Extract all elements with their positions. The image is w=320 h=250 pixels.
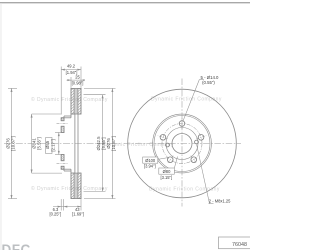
svg-text:(0.55"): (0.55") xyxy=(202,80,215,85)
section centerline xyxy=(4,143,122,145)
svg-text:Ø55: Ø55 xyxy=(45,140,50,149)
box phi80 xyxy=(159,157,178,180)
svg-text:[10.87"]: [10.87"] xyxy=(111,136,116,151)
label 5-phi14 xyxy=(201,75,220,85)
outer circle xyxy=(128,89,237,198)
dim 49.2 xyxy=(60,67,62,114)
flange strip top (hatched) xyxy=(61,118,64,121)
dim right2 line xyxy=(111,88,113,198)
svg-text:[5.55"]: [5.55"] xyxy=(37,137,42,149)
plate outlines xyxy=(71,88,81,114)
bolt holes xyxy=(160,121,204,163)
dim texts left view xyxy=(5,64,116,217)
svg-text:[1.69"]: [1.69"] xyxy=(72,212,84,217)
vent vane line top xyxy=(75,88,77,114)
dim bottom ext lines xyxy=(60,199,62,210)
svg-text:[2.17"]: [2.17"] xyxy=(51,139,56,151)
svg-text:DFC: DFC xyxy=(2,242,31,250)
bolt hole centerline top xyxy=(57,123,69,125)
center bore xyxy=(172,134,192,154)
hat circle xyxy=(154,116,210,172)
dim bottom line xyxy=(53,206,81,208)
flange strip bottom (hatched) xyxy=(61,155,64,161)
dim 25 xyxy=(70,77,72,88)
BCD circle xyxy=(162,124,202,164)
dim phi55 line xyxy=(58,133,60,155)
svg-text:© Dynamic Friction Company: © Dynamic Friction Company xyxy=(31,96,108,103)
hat step bottom xyxy=(64,170,71,172)
friction plate outer (hatched) xyxy=(78,88,81,114)
hat step top xyxy=(64,115,71,117)
M8 holes xyxy=(195,140,199,144)
svg-text:[0.98"]: [0.98"] xyxy=(72,81,84,86)
svg-text:49.2: 49.2 xyxy=(67,64,76,69)
dim phi276 left line xyxy=(11,88,13,198)
label 2-M8 xyxy=(197,145,232,204)
text phi55 boxed xyxy=(46,138,52,154)
vent vane line bottom xyxy=(75,173,77,199)
svg-text:2 - M8x1.25: 2 - M8x1.25 xyxy=(209,199,231,204)
dim right1 line xyxy=(102,95,104,192)
radial centerlines through holes xyxy=(158,118,207,164)
center lines xyxy=(124,79,241,207)
svg-text:76048: 76048 xyxy=(232,242,247,248)
top page border xyxy=(0,2,250,4)
svg-text:25: 25 xyxy=(75,75,80,80)
svg-text:[3.15"]: [3.15"] xyxy=(160,175,172,180)
part number box xyxy=(219,237,252,249)
svg-text:[10.87"]: [10.87"] xyxy=(10,136,15,151)
box phi100 xyxy=(143,157,168,169)
bolt hole centerline bottom xyxy=(57,163,69,165)
dim phi141 line xyxy=(31,114,33,173)
svg-text:Dynamic Friction Company: Dynamic Friction Company xyxy=(149,187,220,193)
friction plate inner (hatched) xyxy=(71,88,74,114)
svg-text:Ø100: Ø100 xyxy=(145,158,156,163)
svg-text:Ø80: Ø80 xyxy=(163,169,171,174)
hat cylinder walls xyxy=(74,114,76,173)
svg-text:[3.94"]: [3.94"] xyxy=(144,164,156,169)
arrows xyxy=(11,69,114,208)
friction ID circle xyxy=(153,114,212,173)
vent wall lines xyxy=(73,88,75,114)
svg-text:[0.25"]: [0.25"] xyxy=(49,212,61,217)
svg-text:© Dynamic Friction Company: © Dynamic Friction Company xyxy=(31,185,108,192)
leader 5-phi14 xyxy=(183,80,199,122)
register circle xyxy=(166,128,198,160)
